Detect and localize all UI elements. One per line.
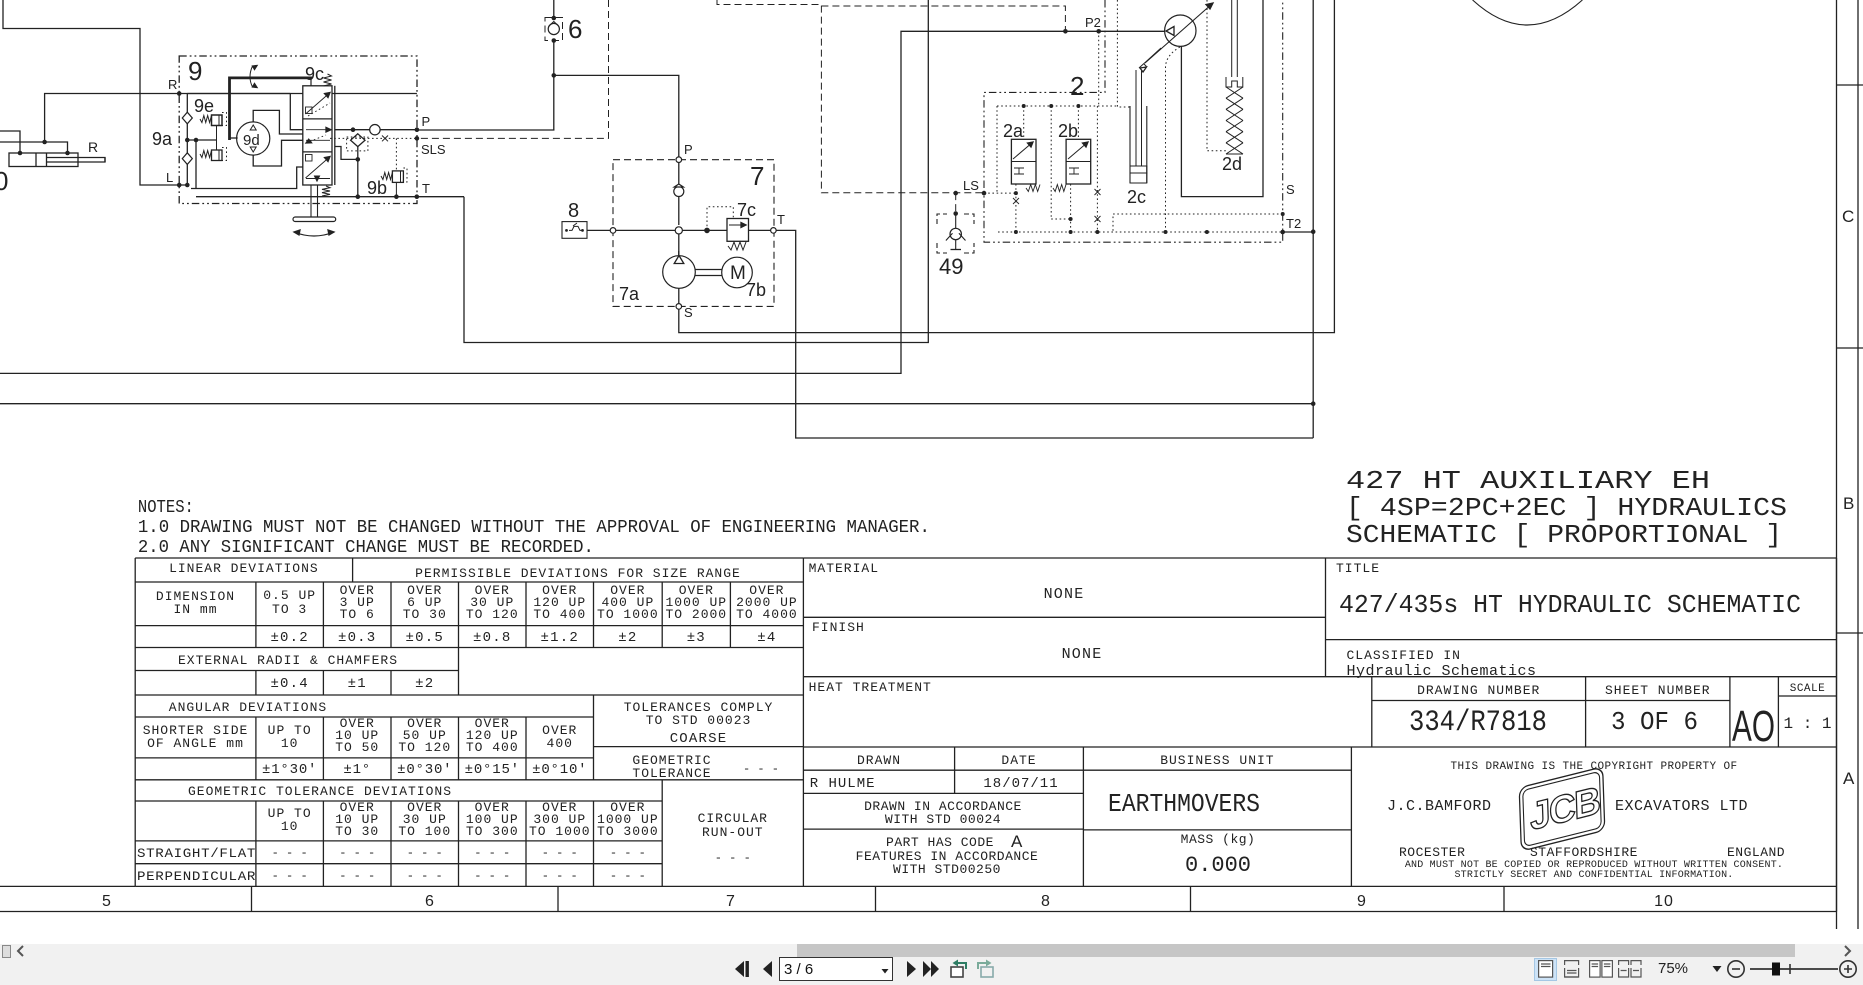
pilot dotted verticals box 2	[996, 106, 998, 193]
svg-text:75%: 75%	[1658, 960, 1688, 977]
wire: P net riser x=553.8	[417, 0, 554, 130]
motor 7b	[722, 257, 753, 288]
wire: pump suction loop	[1181, 0, 1263, 197]
spring assembly 2d	[1232, 0, 1238, 77]
svg-text:B: B	[1843, 494, 1854, 513]
solenoid valve 2a	[1011, 139, 1036, 184]
wire: long bus to T2	[0, 403, 1313, 405]
wire: junction to 7c and T	[682, 229, 770, 231]
svg-text:6: 6	[568, 14, 582, 44]
check valve diamond upper 9a	[182, 112, 192, 124]
horizontal scrollbar thumb	[797, 944, 1795, 957]
svg-text:- - -: - - -	[542, 869, 578, 883]
wire: T2 riser	[1312, 0, 1314, 438]
T wire inside box 9	[196, 196, 464, 198]
port S of box 7	[676, 304, 682, 310]
svg-text:TO 50: TO 50	[335, 740, 379, 755]
svg-text:CLASSIFIED IN: CLASSIFIED IN	[1347, 648, 1461, 663]
single page layout icon selected	[1534, 958, 1557, 981]
svg-text:TO 1000: TO 1000	[597, 607, 659, 622]
svg-text:TO 400: TO 400	[533, 607, 586, 622]
component box 9 dash-dot border	[179, 56, 417, 204]
svg-text:TO 30: TO 30	[403, 607, 447, 622]
valve 2a spring	[1026, 185, 1040, 192]
LS port	[982, 191, 987, 196]
component box 2 dash-dot border	[984, 0, 1283, 242]
port SLS	[415, 136, 420, 141]
relief valve 7c	[727, 219, 749, 242]
frame: sheet inner border right	[1836, 0, 1838, 929]
wire: T2 out	[1283, 231, 1314, 233]
facing continuous icon	[1618, 960, 1642, 978]
svg-text:±2: ±2	[415, 676, 434, 692]
svg-text:M: M	[730, 263, 746, 284]
steering cylinder 0	[9, 153, 78, 167]
steering wheel	[293, 217, 336, 222]
svg-text:- - -: - - -	[610, 869, 646, 883]
port T of box 7	[771, 228, 777, 234]
valve 9c top spring	[324, 74, 332, 86]
svg-text:334/R7818: 334/R7818	[1409, 706, 1547, 740]
pump 7a	[663, 256, 696, 289]
zoom slider	[1748, 959, 1840, 979]
nav first page button	[732, 958, 754, 980]
svg-text:SCHEMATIC [ PROPORTIONAL ]: SCHEMATIC [ PROPORTIONAL ]	[1346, 520, 1782, 550]
nav prev page button	[757, 958, 779, 980]
svg-text:- - -: - - -	[407, 846, 443, 860]
svg-text:TO 100: TO 100	[398, 824, 451, 839]
svg-text:P2: P2	[1085, 15, 1101, 30]
svg-text:TO 1000: TO 1000	[529, 824, 591, 839]
wire: cylinder right port line	[0, 142, 68, 153]
svg-text:DRAWN: DRAWN	[857, 753, 901, 768]
pump 2 case drain dotted	[1166, 47, 1181, 232]
steering wheel rotate arc	[294, 232, 334, 236]
svg-text:AO: AO	[1732, 702, 1775, 751]
next view icon greyed	[974, 957, 996, 981]
svg-text:0: 0	[0, 166, 8, 196]
svg-text:49: 49	[939, 254, 963, 279]
svg-text:5: 5	[102, 893, 112, 910]
title block grid	[803, 557, 1836, 559]
svg-text:9: 9	[188, 56, 202, 86]
variable pump 2 main	[1165, 15, 1196, 46]
relief valve 9b	[392, 171, 403, 183]
svg-text:18/07/11: 18/07/11	[983, 776, 1058, 792]
pilot dotted rail top	[997, 105, 1117, 107]
svg-text:HEAT TREATMENT: HEAT TREATMENT	[809, 680, 932, 695]
wire: net to top-left exit	[3, 0, 187, 185]
solenoid valve 2b	[1066, 139, 1091, 184]
svg-text:- - -: - - -	[272, 846, 308, 860]
svg-text:WITH STD00250: WITH STD00250	[893, 862, 1001, 877]
pilot dashed from top to SLS riser	[417, 0, 609, 138]
svg-text:J.C.BAMFORD: J.C.BAMFORD	[1387, 798, 1492, 815]
svg-text:2: 2	[1070, 71, 1084, 101]
svg-text:MATERIAL: MATERIAL	[809, 561, 879, 576]
svg-text:A: A	[1843, 769, 1855, 788]
svg-text:1 : 1: 1 : 1	[1783, 715, 1831, 733]
svg-text:T: T	[777, 212, 785, 227]
svg-text:SLS: SLS	[421, 142, 446, 157]
page number box	[779, 957, 893, 981]
svg-text:TO 2000: TO 2000	[665, 607, 727, 622]
pilot dotted LS spur	[984, 192, 1016, 194]
big tank arc top right	[1473, 0, 1583, 25]
svg-text:±0°15': ±0°15'	[465, 762, 520, 778]
svg-text:ENGLAND: ENGLAND	[1727, 845, 1785, 860]
svg-text:7b: 7b	[746, 280, 766, 300]
svg-text:GEOMETRIC TOLERANCE DEVIATIONS: GEOMETRIC TOLERANCE DEVIATIONS	[188, 784, 452, 799]
svg-text:TO 120: TO 120	[466, 607, 519, 622]
check ball on P line	[370, 125, 380, 135]
svg-text:- - -: - - -	[474, 869, 510, 883]
svg-text:[ 4SP=2PC+2EC ] HYDRAULICS: [ 4SP=2PC+2EC ] HYDRAULICS	[1346, 493, 1787, 523]
check valve diamond lower 9a	[182, 153, 192, 165]
mechanical link thick bracket	[230, 78, 313, 140]
svg-text:TO 3: TO 3	[272, 602, 307, 617]
shaft pump-motor	[695, 269, 722, 271]
pilot dotted of 7c	[707, 207, 733, 231]
component 8 breather	[562, 222, 587, 239]
svg-text:2.0 ANY SIGNIFICANT CHANGE MUS: 2.0 ANY SIGNIFICANT CHANGE MUST BE RECOR…	[138, 538, 594, 558]
check valve 49 dashed box	[937, 214, 974, 224]
svg-text:1.0 DRAWING MUST NOT BE CHANGE: 1.0 DRAWING MUST NOT BE CHANGED WITHOUT …	[138, 518, 930, 538]
svg-text:- - -: - - -	[407, 869, 443, 883]
svg-text:7a: 7a	[619, 284, 640, 304]
svg-text:9b: 9b	[367, 178, 387, 198]
svg-text:±1: ±1	[348, 676, 367, 692]
svg-text:PERPENDICULAR: PERPENDICULAR	[137, 869, 256, 884]
wire: suction S bus	[679, 0, 1335, 333]
svg-text:STRAIGHT/FLAT: STRAIGHT/FLAT	[137, 846, 256, 861]
svg-text:- - -: - - -	[272, 869, 308, 883]
scrollbar left widget	[2, 945, 11, 958]
relief valve 9a lower with spring	[212, 150, 223, 161]
svg-text:427 HT AUXILIARY EH: 427 HT AUXILIARY EH	[1346, 466, 1710, 496]
steering valve 9c block	[303, 86, 332, 185]
svg-text:±0.8: ±0.8	[473, 630, 511, 646]
pump 2 displacement arrow	[1145, 3, 1213, 63]
check valve 49	[953, 191, 958, 196]
svg-text:- - -: - - -	[715, 851, 751, 865]
servo arrow link	[1139, 48, 1161, 68]
svg-text:±0°30': ±0°30'	[397, 762, 452, 778]
svg-text:MASS (kg): MASS (kg)	[1181, 832, 1256, 847]
pilot dashed upper right leg	[717, 0, 984, 193]
svg-text:2a: 2a	[1003, 121, 1024, 141]
wire: inner vertical 9a rail	[186, 94, 188, 186]
svg-text:T: T	[422, 181, 430, 196]
wire: T bus from box 9	[464, 0, 928, 343]
wire: P2 bus lower	[0, 31, 1165, 373]
svg-text:2c: 2c	[1127, 187, 1146, 207]
nav last page button	[921, 958, 947, 980]
valve 9c bottom spring	[322, 186, 330, 196]
svg-text:±1°30': ±1°30'	[262, 762, 317, 778]
rotation arc arrow on link	[250, 66, 253, 87]
previous view icon	[948, 957, 970, 981]
svg-text:RUN-OUT: RUN-OUT	[702, 825, 764, 840]
svg-text:SCALE: SCALE	[1790, 683, 1826, 695]
svg-text:COARSE: COARSE	[670, 731, 728, 747]
svg-text:LS: LS	[963, 178, 979, 193]
svg-text:0.000: 0.000	[1185, 853, 1251, 878]
tolerance table grid	[135, 557, 803, 559]
svg-text:EARTHMOVERS: EARTHMOVERS	[1108, 789, 1260, 819]
svg-text:P: P	[422, 114, 431, 129]
svg-text:ROCESTER: ROCESTER	[1399, 845, 1465, 860]
svg-text:±0.3: ±0.3	[338, 630, 376, 646]
svg-text:10: 10	[1654, 893, 1674, 910]
junction circle on pump line	[675, 227, 682, 234]
svg-text:S: S	[1286, 182, 1295, 197]
svg-text:- - -: - - -	[542, 846, 578, 860]
svg-text:WITH STD 00024: WITH STD 00024	[885, 812, 1001, 827]
check diamond on P 9a	[351, 134, 365, 147]
svg-text:0.5 UP: 0.5 UP	[263, 588, 316, 603]
continuous layout icon	[1564, 960, 1580, 978]
SLS dotted line	[330, 137, 417, 139]
wire: 8 to pump junction	[587, 229, 675, 231]
wire: valve to diamond step	[335, 147, 358, 160]
svg-text:TO 4000: TO 4000	[736, 607, 798, 622]
svg-text:TO 6: TO 6	[340, 607, 375, 622]
svg-text:TO 400: TO 400	[466, 740, 519, 755]
servo piston 2c	[1130, 106, 1147, 183]
svg-text:ANGULAR DEVIATIONS: ANGULAR DEVIATIONS	[169, 700, 327, 715]
svg-text:CIRCULAR: CIRCULAR	[698, 811, 768, 826]
pilot dotted to 2d	[1207, 0, 1226, 151]
svg-text:±4: ±4	[757, 630, 776, 646]
wire: R line from port R to cylinder branch	[45, 94, 417, 143]
pilot dotted rail T2	[998, 231, 1283, 233]
svg-text:TITLE: TITLE	[1336, 561, 1380, 576]
facing pages icon	[1589, 960, 1613, 978]
relief valve 9e upper with spring	[212, 115, 223, 126]
JCB logo	[1506, 767, 1617, 851]
svg-text:R: R	[168, 77, 177, 92]
svg-text:STAFFORDSHIRE: STAFFORDSHIRE	[1530, 845, 1638, 860]
svg-text:7: 7	[726, 893, 736, 910]
svg-text:±3: ±3	[687, 630, 706, 646]
steering wheel shaft	[310, 185, 312, 218]
svg-text:C: C	[1842, 207, 1854, 226]
svg-text:8: 8	[1041, 893, 1051, 910]
wire: R net into valve	[290, 94, 303, 130]
nav next page button	[900, 958, 922, 980]
wire: inner second rail	[195, 140, 197, 189]
port T2	[1280, 230, 1285, 235]
svg-text:EXTERNAL RADII & CHAMFERS: EXTERNAL RADII & CHAMFERS	[178, 653, 398, 668]
svg-text:3 / 6: 3 / 6	[784, 961, 813, 978]
svg-text:DRAWING NUMBER: DRAWING NUMBER	[1417, 683, 1540, 698]
svg-text:±0.4: ±0.4	[270, 676, 308, 692]
pilot dotted to 9b	[395, 138, 397, 171]
wire: diamond drop to T	[357, 147, 359, 197]
svg-text:TO 3000: TO 3000	[597, 824, 659, 839]
component 6 check valve	[545, 18, 563, 41]
svg-text:7: 7	[750, 161, 764, 191]
svg-text:NOTES:: NOTES:	[138, 498, 194, 518]
svg-text:3 OF 6: 3 OF 6	[1611, 707, 1698, 737]
wire: P branch to box 7 port P	[554, 75, 679, 157]
svg-text:STRICTLY SECRET AND CONFIDENTI: STRICTLY SECRET AND CONFIDENTIAL INFORMA…	[1454, 870, 1733, 881]
svg-text:±2: ±2	[618, 630, 637, 646]
wire: cylinder left port line	[0, 131, 20, 153]
svg-text:±1°: ±1°	[343, 762, 371, 778]
svg-text:L: L	[166, 170, 173, 185]
svg-text:R: R	[88, 139, 98, 155]
svg-text:FINISH: FINISH	[812, 620, 865, 635]
svg-text:NONE: NONE	[1044, 586, 1085, 603]
svg-text:P: P	[684, 142, 693, 157]
svg-text:- - -: - - -	[339, 846, 375, 860]
wire: 9d bottom loop to valve	[253, 140, 303, 166]
svg-text:427/435s HT HYDRAULIC SCHEMATI: 427/435s HT HYDRAULIC SCHEMATIC	[1339, 590, 1801, 620]
svg-text:9e: 9e	[194, 96, 214, 116]
svg-text:LINEAR DEVIATIONS: LINEAR DEVIATIONS	[169, 561, 319, 576]
pilot dotted from P2 to valves	[1098, 31, 1100, 106]
svg-text:THIS DRAWING IS THE COPYRIGHT: THIS DRAWING IS THE COPYRIGHT PROPERTY O…	[1450, 761, 1737, 773]
orifice X on SLS	[382, 136, 388, 142]
svg-text:9: 9	[1357, 893, 1367, 910]
svg-text:8: 8	[568, 200, 579, 222]
valve 2b spring	[1053, 185, 1066, 192]
svg-text:TO STD 00023: TO STD 00023	[646, 713, 752, 728]
svg-text:7c: 7c	[737, 200, 756, 220]
svg-text:10: 10	[281, 736, 299, 751]
svg-text:- - -: - - -	[743, 762, 779, 776]
svg-text:BUSINESS UNIT: BUSINESS UNIT	[1160, 753, 1274, 768]
wire: inner loop to valve bottom	[191, 167, 303, 189]
svg-text:±1.2: ±1.2	[541, 630, 579, 646]
svg-text:TO 30: TO 30	[335, 824, 379, 839]
svg-text:PART HAS CODE: PART HAS CODE	[886, 835, 994, 850]
component box 7 dashed border	[613, 160, 774, 307]
svg-text:IN mm: IN mm	[173, 602, 217, 617]
pilot dashed box upper corner to P2	[821, 6, 1065, 31]
svg-text:2b: 2b	[1058, 121, 1078, 141]
svg-text:TO 300: TO 300	[466, 824, 519, 839]
wire: P line from valve	[335, 129, 417, 131]
mechanical link to valve	[310, 78, 312, 86]
inline check valve below P	[678, 163, 680, 187]
wire: 7c out to tank bus	[776, 230, 1313, 438]
svg-text:10: 10	[281, 819, 299, 834]
svg-text:- - -: - - -	[474, 846, 510, 860]
pilot dotted S jog	[1113, 214, 1283, 232]
svg-text:R HULME: R HULME	[810, 776, 876, 792]
wire: 9d top loop to valve	[253, 110, 303, 134]
valve 9c section arrows	[306, 94, 330, 115]
zoom percent	[1658, 958, 1698, 978]
port P of box 7	[676, 157, 682, 163]
svg-text:±0.2: ±0.2	[270, 630, 308, 646]
svg-text:6: 6	[425, 893, 435, 910]
svg-text:OF ANGLE mm: OF ANGLE mm	[147, 736, 244, 751]
svg-text:TO 120: TO 120	[398, 740, 451, 755]
svg-text:9d: 9d	[243, 132, 260, 149]
svg-text:TOLERANCE: TOLERANCE	[632, 766, 711, 781]
svg-text:9c: 9c	[305, 64, 324, 84]
port R of box 9	[177, 91, 182, 96]
port P	[415, 127, 420, 132]
zoom in button	[1838, 959, 1858, 979]
svg-text:S: S	[684, 305, 693, 320]
port L of box 9	[177, 183, 182, 188]
svg-text:400: 400	[547, 736, 573, 751]
svg-text:SHEET NUMBER: SHEET NUMBER	[1605, 683, 1711, 698]
zone ticks right	[1837, 84, 1863, 86]
svg-text:2d: 2d	[1222, 154, 1242, 174]
svg-text:DATE: DATE	[1001, 753, 1036, 768]
zoom out button	[1726, 959, 1746, 979]
svg-text:EXCAVATORS LTD: EXCAVATORS LTD	[1615, 798, 1748, 815]
svg-text:T2: T2	[1286, 216, 1301, 231]
svg-text:NONE: NONE	[1062, 646, 1103, 663]
svg-text:- - -: - - -	[339, 869, 375, 883]
pilot dotted top right	[1117, 0, 1130, 107]
svg-text:±0.5: ±0.5	[406, 630, 444, 646]
zone band	[0, 911, 1837, 913]
svg-text:PERMISSIBLE DEVIATIONS FOR SIZ: PERMISSIBLE DEVIATIONS FOR SIZE RANGE	[415, 566, 741, 581]
svg-text:±0°10': ±0°10'	[532, 762, 587, 778]
svg-text:Hydraulic Schematics: Hydraulic Schematics	[1347, 663, 1537, 680]
spring of 7c	[728, 242, 746, 250]
pdf viewer bottom toolbar	[0, 944, 1863, 985]
steering metering unit 9d circle	[237, 122, 270, 155]
svg-text:- - -: - - -	[610, 846, 646, 860]
svg-text:9a: 9a	[152, 129, 173, 149]
orifice marks	[1013, 198, 1019, 204]
